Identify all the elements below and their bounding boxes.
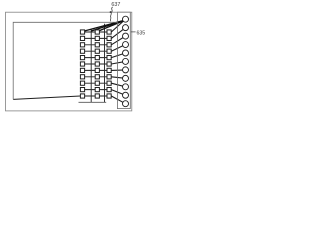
terminal square row 7 col 2 xyxy=(95,68,99,72)
terminal square row 4 col 2 xyxy=(95,49,99,53)
wire row 10 horizontal xyxy=(80,89,111,91)
wire row 4 horizontal xyxy=(80,50,111,52)
leader squiggle for 637 xyxy=(110,7,113,21)
wire row 11 extension to left wall xyxy=(13,96,80,99)
wire row 1 horizontal xyxy=(80,31,111,33)
wire row 4 to contact circle 4 xyxy=(111,45,125,52)
inner enclosure left and top edges xyxy=(13,22,117,99)
terminal square row 3 col 3 xyxy=(107,43,111,47)
wire row 6 horizontal xyxy=(80,63,111,65)
terminal square row 11 col 3 xyxy=(107,94,111,98)
terminal square row 9 col 2 xyxy=(95,81,99,85)
contact circle 2 xyxy=(123,25,129,31)
terminal square row 3 col 2 xyxy=(95,43,99,47)
conductor 637 fan line 3 to circle 1 xyxy=(97,20,125,32)
terminal square row 11 col 1 xyxy=(80,94,84,98)
conductor 637 fan line 2 to circle 1 xyxy=(91,20,125,31)
terminal square row 11 col 2 xyxy=(95,94,99,98)
terminal square row 6 col 1 xyxy=(80,62,84,66)
wire row 6 to contact circle 6 xyxy=(111,61,125,64)
wire row 11 horizontal xyxy=(80,95,111,97)
wire row 7 horizontal xyxy=(80,69,111,71)
contact circle 8 xyxy=(123,75,129,81)
wire row 3 to contact circle 3 xyxy=(111,36,125,45)
conductor 637 fan line 1 to circle 1 xyxy=(83,20,126,32)
terminal square row 8 col 2 xyxy=(95,75,99,79)
contact circle 6 xyxy=(123,58,129,64)
wire row 1 to contact circle 1 xyxy=(111,19,125,32)
terminal square row 2 col 3 xyxy=(107,36,111,40)
contact circle 4 xyxy=(123,42,129,48)
terminal square row 5 col 3 xyxy=(107,56,111,60)
wire row 5 to contact circle 5 xyxy=(111,53,125,58)
svg-text:637: 637 xyxy=(111,2,120,8)
terminal square row 5 col 2 xyxy=(95,56,99,60)
contact circle 3 xyxy=(123,33,129,39)
wire row 3 horizontal xyxy=(80,44,111,46)
terminal square row 3 col 1 xyxy=(80,43,84,47)
terminal square row 4 col 3 xyxy=(107,49,111,53)
bus bar B1 vertical xyxy=(90,30,92,103)
wire row 9 to contact circle 9 xyxy=(111,83,125,87)
terminal square row 2 col 1 xyxy=(80,36,84,40)
terminal square row 7 col 3 xyxy=(107,68,111,72)
terminal square row 9 col 1 xyxy=(80,81,84,85)
contact circle 7 xyxy=(123,67,129,73)
terminal square row 4 col 1 xyxy=(80,49,84,53)
terminal square row 10 col 2 xyxy=(95,88,99,92)
svg-text:635: 635 xyxy=(137,30,146,36)
terminal square row 5 col 1 xyxy=(80,56,84,60)
terminal square row 10 col 3 xyxy=(107,88,111,92)
terminal square row 10 col 1 xyxy=(80,88,84,92)
terminal square row 7 col 1 xyxy=(80,68,84,72)
terminal square row 8 col 1 xyxy=(80,75,84,79)
terminal square row 1 col 1 xyxy=(80,30,84,34)
contact circle 9 xyxy=(123,84,129,90)
conductor 637 fan line 4 to circle 1 xyxy=(105,20,126,26)
wire row 10 to contact circle 10 xyxy=(111,90,125,96)
terminal square row 8 col 3 xyxy=(107,75,111,79)
terminal square row 9 col 3 xyxy=(107,81,111,85)
wire row 2 horizontal xyxy=(80,37,111,39)
terminal square row 1 col 3 xyxy=(107,30,111,34)
contact circle 1 xyxy=(123,16,129,22)
terminal square row 1 col 2 xyxy=(95,30,99,34)
contact circle 11 xyxy=(123,101,129,107)
wire row 8 to contact circle 8 xyxy=(111,77,125,79)
terminal square row 2 col 2 xyxy=(95,36,99,40)
wire row 2 to contact circle 2 xyxy=(111,28,125,39)
base line under terminal block xyxy=(79,101,107,103)
contact circle 10 xyxy=(123,92,129,98)
wire row 9 horizontal xyxy=(80,82,111,84)
leader tick for 635 xyxy=(131,31,136,33)
wire row 7 to contact circle 7 xyxy=(111,69,125,72)
contact strip housing xyxy=(117,12,130,108)
wire row 8 horizontal xyxy=(80,76,111,78)
terminal square row 6 col 2 xyxy=(95,62,99,66)
wire row 5 horizontal xyxy=(80,57,111,59)
bus bar B2 vertical xyxy=(104,24,106,103)
terminal square row 6 col 3 xyxy=(107,62,111,66)
wire row 11 to contact circle 11 xyxy=(111,96,125,104)
outer enclosure rectangle xyxy=(6,12,132,111)
contact circle 5 xyxy=(123,50,129,56)
